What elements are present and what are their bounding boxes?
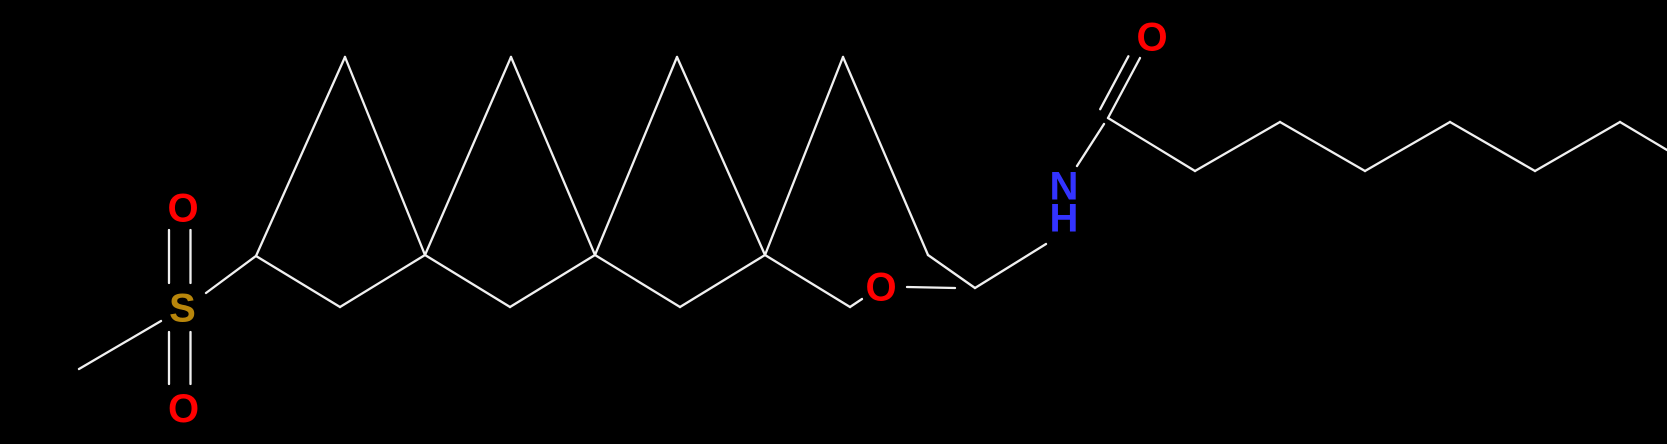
wire chain R R2-R3 <box>1280 122 1365 171</box>
svg-text:H: H <box>1050 197 1079 241</box>
wire chain R R4-R5 <box>1450 122 1535 171</box>
svg-text:O: O <box>167 187 198 231</box>
wire chain R R3-R4 <box>1365 122 1450 171</box>
wire V4-X <box>928 255 975 288</box>
wire tall leg A1-C3 <box>345 57 425 255</box>
wire methyl CH3-S <box>79 321 161 369</box>
svg-text:O: O <box>168 387 199 431</box>
wire chain R R5-R6 <box>1535 122 1620 171</box>
wire C=O double bond second <box>1100 56 1128 109</box>
wire chain B C7-C8 <box>765 255 850 307</box>
wire chain R R1-R2 <box>1195 122 1280 171</box>
wire tall leg A2-C5 <box>511 57 595 255</box>
wire tall leg C1-A1 <box>256 57 345 256</box>
wire X-N <box>975 244 1046 288</box>
wire chain B C4-C5 <box>510 255 595 307</box>
svg-text:S: S <box>169 287 196 331</box>
wire S=O top double bond <box>168 230 170 283</box>
wire S-C1 <box>206 256 256 293</box>
svg-text:O: O <box>1136 16 1167 60</box>
wire N-Ccarbonyl <box>1077 124 1104 166</box>
wire chain B C6-C7 <box>680 255 765 307</box>
wire tall leg C5-A3 <box>595 57 677 255</box>
svg-text:O: O <box>865 266 896 310</box>
wire tall leg A3-C7 <box>677 57 765 255</box>
wire tall leg C7-A4 <box>765 57 843 255</box>
wire chain R R6-edge <box>1620 122 1667 150</box>
wire tall leg C3-A2 <box>425 57 511 255</box>
wire chain R C-R1 <box>1108 118 1195 171</box>
wire tall leg A4-V4 <box>843 57 928 255</box>
wire chain B C3-C4 <box>425 255 510 307</box>
wire chain B C1-C2 <box>256 256 340 307</box>
wire C=O double bond main <box>1108 58 1140 118</box>
wire chain B C2-C3 <box>340 255 425 307</box>
wire chain B C5-C6 <box>595 255 680 307</box>
wire S=O bottom double bond <box>168 332 170 384</box>
wire Oether-X horizontal <box>907 287 955 288</box>
wire chain B C8-Oether <box>850 299 862 307</box>
